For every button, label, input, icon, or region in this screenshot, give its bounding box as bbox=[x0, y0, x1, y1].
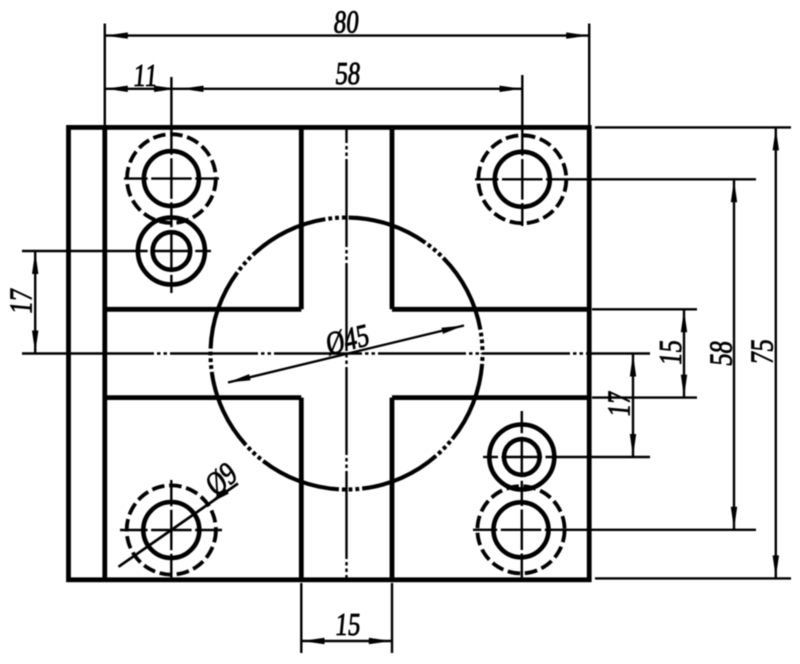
extension line slot top right bbox=[592, 308, 697, 310]
dimension 58 right line bbox=[731, 179, 737, 530]
leader line D9 bbox=[119, 484, 239, 567]
svg-text:Ø45: Ø45 bbox=[324, 317, 371, 362]
hole E bore circle bbox=[494, 502, 549, 557]
dimension 17 left text bbox=[4, 287, 40, 315]
svg-text:58: 58 bbox=[704, 339, 740, 367]
dimension 15 bottom line bbox=[301, 638, 392, 644]
vertical slot left edge upper segment bbox=[299, 127, 304, 309]
hole C vertical centreline bbox=[521, 75, 523, 226]
svg-text:Ø9: Ø9 bbox=[200, 455, 244, 504]
dimension 75 right line bbox=[773, 127, 779, 578]
hole B horizontal centreline bbox=[22, 250, 211, 252]
dimension 15 right text bbox=[653, 338, 689, 366]
hole C bore circle bbox=[495, 152, 550, 207]
horizontal slot lower edge right segment bbox=[392, 395, 589, 400]
dimension 17 left line bbox=[32, 251, 38, 354]
dimension 11 line bbox=[105, 86, 177, 92]
dimension 11 text bbox=[132, 58, 159, 94]
extension line left of dim 15 bottom bbox=[300, 583, 302, 653]
plate outline (80x75 block) bbox=[69, 127, 590, 579]
svg-text:75: 75 bbox=[745, 337, 781, 365]
dimension 80 line bbox=[105, 32, 589, 38]
hole C horizontal centreline bbox=[475, 178, 756, 180]
svg-text:58: 58 bbox=[334, 56, 362, 92]
hole F vertical centreline bbox=[170, 480, 172, 580]
dimension 15 right line bbox=[681, 309, 687, 397]
hole E counterbore circle (dashed) bbox=[477, 486, 564, 573]
central bore circle D45 (dashed) bbox=[211, 218, 483, 490]
hole A bore circle bbox=[144, 151, 199, 206]
dimension 58 top text bbox=[334, 56, 362, 92]
extension line slot bottom right bbox=[592, 396, 697, 398]
extension line bottom edge right bbox=[595, 577, 791, 579]
extension line left of dim 80 bbox=[104, 24, 106, 126]
svg-text:11: 11 bbox=[132, 58, 159, 94]
hole E horizontal centreline bbox=[473, 529, 756, 531]
svg-text:17: 17 bbox=[4, 287, 40, 315]
svg-text:15: 15 bbox=[653, 338, 689, 366]
extension line top edge right bbox=[595, 126, 791, 128]
extension line right of dim 80 bbox=[588, 24, 590, 126]
leader line D45 bbox=[228, 326, 464, 383]
horizontal slot lower edge left segment bbox=[105, 395, 301, 400]
dimension 15 bottom text bbox=[334, 607, 362, 643]
vertical slot right edge lower segment bbox=[390, 398, 395, 580]
holes D/E vertical centreline bbox=[521, 411, 523, 578]
hole B inner circle bbox=[153, 232, 191, 270]
left step edge bbox=[102, 127, 107, 579]
dimension 58 top line bbox=[171, 86, 522, 92]
hole F bore circle bbox=[143, 502, 199, 558]
svg-text:15: 15 bbox=[334, 607, 362, 643]
hole C counterbore circle (dashed) bbox=[478, 135, 566, 223]
horizontal slot upper edge left segment bbox=[105, 307, 301, 312]
main horizontal centreline left extension bbox=[22, 352, 69, 354]
dimension 80 text bbox=[332, 5, 360, 41]
hole F horizontal centreline bbox=[120, 529, 222, 531]
label D9 bbox=[200, 455, 244, 504]
dimension 75 right text bbox=[745, 337, 781, 365]
central vertical centreline bbox=[345, 127, 347, 579]
label D45 bbox=[324, 317, 371, 362]
vertical slot left edge lower segment bbox=[299, 398, 304, 580]
extension line right of dim 15 bottom bbox=[391, 583, 393, 653]
hole A horizontal centreline bbox=[124, 177, 219, 179]
hole B outer circle bbox=[138, 218, 205, 285]
hole A counterbore circle (dashed) bbox=[127, 134, 216, 223]
vertical slot right edge upper segment bbox=[390, 127, 395, 309]
hole F counterbore circle (dashed) bbox=[127, 485, 216, 574]
horizontal slot upper edge right segment bbox=[392, 307, 589, 312]
dimension 58 right text bbox=[704, 339, 740, 367]
hole D outer circle bbox=[489, 425, 554, 490]
hole D horizontal centreline bbox=[483, 456, 650, 458]
dimension 17 right line bbox=[630, 354, 636, 458]
holes A/B vertical centreline bbox=[170, 77, 172, 293]
svg-text:17: 17 bbox=[602, 390, 638, 418]
hole D inner circle bbox=[504, 439, 540, 475]
svg-text:80: 80 bbox=[332, 5, 360, 41]
main horizontal centreline right extension bbox=[589, 352, 650, 354]
main horizontal centreline inside part bbox=[69, 352, 590, 354]
dimension 17 right text bbox=[602, 390, 638, 418]
